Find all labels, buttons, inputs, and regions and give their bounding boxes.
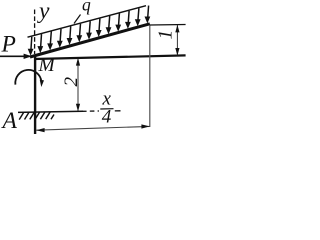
beam (inclined bar)	[30, 24, 150, 57]
dimension 2 line	[77, 59, 79, 111]
bottom dimension 4 line	[36, 126, 150, 130]
svg-text:1: 1	[155, 30, 176, 40]
svg-text:2: 2	[61, 77, 82, 87]
distributed load q arrows	[31, 6, 149, 51]
column (vertical post)	[34, 56, 36, 135]
force P arrow	[0, 55, 27, 57]
svg-text:4: 4	[102, 107, 112, 128]
svg-text:y: y	[37, 0, 50, 24]
dimension 1 line	[176, 25, 178, 55]
svg-text:q: q	[82, 0, 91, 14]
moment arc	[15, 70, 41, 85]
svg-text:A: A	[1, 108, 18, 134]
ground hatching	[19, 112, 54, 120]
svg-text:P: P	[1, 31, 16, 57]
right vertical reference line	[149, 25, 151, 127]
distributed load top line	[28, 6, 147, 38]
q leader line	[74, 15, 81, 24]
dashed x/4 line	[82, 110, 99, 112]
y axis dashed line	[34, 10, 36, 55]
ground line	[18, 111, 83, 112]
svg-text:M: M	[38, 55, 57, 76]
top right reference line	[150, 24, 186, 27]
x axis line	[34, 55, 186, 59]
moment arrowhead	[40, 80, 44, 87]
